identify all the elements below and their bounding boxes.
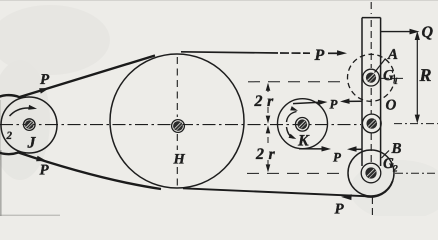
gear A pitch circle (dashed) xyxy=(348,54,395,101)
svg-text:P: P xyxy=(335,202,345,217)
hub of J xyxy=(24,119,36,131)
label B with pointer xyxy=(382,141,402,158)
svg-text:K: K xyxy=(297,133,310,150)
svg-text:A: A xyxy=(387,47,398,63)
tangent line from H to gear A (force P) xyxy=(181,52,278,53)
label A with pointer xyxy=(375,47,399,73)
svg-text:Q: Q xyxy=(422,24,434,41)
arrowhead P on bottom line xyxy=(341,194,352,200)
svg-text:P: P xyxy=(314,47,325,64)
label G1 xyxy=(383,68,398,87)
svg-text:1: 1 xyxy=(394,77,399,87)
pin O xyxy=(362,114,381,133)
pulley J xyxy=(1,97,57,153)
force pair P at K top / A bottom xyxy=(293,100,328,105)
svg-text:P: P xyxy=(333,150,342,165)
extension line of B centerline (dashed) xyxy=(247,172,346,174)
hub of H xyxy=(172,120,185,133)
svg-text:G: G xyxy=(383,68,394,84)
dashed centerline below B xyxy=(371,197,373,216)
arrowhead on top belt xyxy=(39,88,49,94)
tangent line from H to gear B (force P) xyxy=(183,181,393,197)
force pair P at K bottom / B top xyxy=(299,146,331,151)
rotation arrow on J xyxy=(10,105,38,116)
svg-text:2r: 2r xyxy=(254,93,278,110)
hub/pin of A xyxy=(363,69,380,86)
svg-text:P: P xyxy=(40,163,50,179)
arrowhead P on top line xyxy=(337,50,347,56)
A centerline right xyxy=(381,77,403,79)
rotation arrows on K xyxy=(287,106,299,122)
B centerline right (dash-dot) xyxy=(395,172,438,174)
svg-text:B: B xyxy=(391,141,402,157)
svg-text:2r: 2r xyxy=(255,146,279,163)
svg-text:2: 2 xyxy=(6,130,13,142)
svg-text:O: O xyxy=(386,98,397,114)
svg-text:J: J xyxy=(27,135,37,152)
force Q arrow xyxy=(381,29,420,35)
vertical bar (link) xyxy=(362,17,381,19)
bar dashed centerline xyxy=(370,2,372,14)
2r dimension line vertical xyxy=(267,84,269,92)
svg-text:P: P xyxy=(40,72,50,88)
svg-text:P: P xyxy=(330,97,339,112)
hub of K xyxy=(296,118,310,132)
vertical centerline of H xyxy=(176,57,178,117)
svg-text:2: 2 xyxy=(392,165,398,175)
extension line of A centerline (dashed) xyxy=(248,81,345,83)
svg-text:H: H xyxy=(173,152,186,168)
arrowhead on bottom belt xyxy=(36,156,46,161)
2r dim arrowheads xyxy=(266,83,271,91)
O centerline right short dash-dot xyxy=(394,123,438,125)
R dimension line xyxy=(415,31,420,124)
pulley K xyxy=(278,99,328,149)
hub/pin of B xyxy=(361,163,381,183)
label G2 xyxy=(383,156,398,175)
svg-text:R: R xyxy=(419,65,432,85)
gear B pitch circle xyxy=(348,150,394,196)
pulley H xyxy=(110,54,244,188)
belt around J and H xyxy=(0,56,161,190)
main horizontal centerline xyxy=(0,124,361,126)
